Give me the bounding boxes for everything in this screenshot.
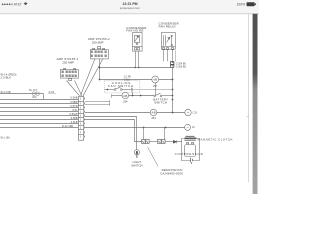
wire row 2 [0, 103, 78, 105]
scrollbar strip right edge [253, 14, 258, 194]
clutch return loop wire [182, 139, 200, 161]
svg-text:FAN SWITCH: FAN SWITCH [108, 84, 133, 88]
status bar left: signal dots, carrier, wifi [2, 3, 28, 7]
svg-text:FAN NO RE: FAN NO RE [126, 29, 143, 33]
harness fan-out wires [67, 59, 104, 97]
magnetic clutch MC1 [184, 136, 196, 141]
svg-text:0.5AB: 0.5AB [70, 96, 77, 99]
svg-text:AT&T: AT&T [14, 3, 22, 7]
svg-text:COMPRESSOR: COMPRESSOR [175, 152, 204, 156]
svg-text:D-14 16B: D-14 16B [62, 125, 73, 128]
connector circle 257 (A/B) [152, 76, 159, 88]
battery symbol B2 [191, 158, 193, 164]
connector C-14 vertical strip [78, 97, 84, 141]
wire row 6 [0, 119, 78, 121]
junction dots relay K1 pins on bus [134, 67, 136, 69]
connector C-14 pin nubs [84, 98, 85, 138]
svg-text:justanswer.com: justanswer.com [119, 6, 141, 10]
svg-text:0.5BR: 0.5BR [70, 101, 77, 104]
svg-text:2.0 B: 2.0 B [49, 91, 55, 94]
wire row 4 [0, 111, 78, 113]
wire B to clutch line [85, 120, 142, 142]
svg-text:C13: C13 [193, 112, 198, 115]
wire through 254 [112, 94, 154, 97]
svg-text:A/B: A/B [151, 111, 155, 114]
svg-text:10: 10 [192, 126, 195, 129]
wire switch to drop [133, 89, 172, 91]
svg-text:C-206 BU: C-206 BU [176, 65, 187, 68]
svg-text:SWITCH: SWITCH [154, 101, 167, 105]
svg-text:250 AMP: 250 AMP [92, 40, 104, 44]
border tick mark [247, 116, 249, 118]
junction dot [172, 99, 174, 101]
wire row labels [62, 96, 78, 128]
svg-text:C-110: C-110 [124, 79, 131, 81]
drop wire from C-204 [172, 68, 174, 113]
svg-text:254: 254 [151, 116, 156, 120]
junction dot [172, 89, 174, 91]
terminal circle C13 [185, 109, 191, 115]
junction dot [172, 79, 174, 81]
vertical feed from CN1 [99, 59, 101, 80]
wire row 5 [0, 115, 78, 117]
terminal circle C10 [185, 124, 191, 130]
connector pair CP2 [158, 140, 166, 144]
relay K1 pin wires [136, 52, 139, 68]
svg-text:W-1 2.0B: W-1 2.0B [1, 91, 11, 94]
resistor leader line [148, 147, 158, 166]
cooling fan switch dashed enclosure [105, 81, 140, 93]
svg-text:100%: 100% [237, 3, 246, 7]
chain wire [149, 141, 157, 143]
wire jog down to row 1 [43, 94, 45, 100]
wire row 7 [0, 123, 78, 125]
connector C-204 (2-pin bracket) [171, 62, 174, 68]
status bar background [0, 0, 259, 14]
wire stub with label [48, 93, 56, 95]
inline splice B1 on wire W-14 [32, 92, 39, 95]
svg-text:A/B: A/B [153, 79, 157, 82]
junction dot [172, 95, 174, 97]
svg-text:MAGNETIC CLUTCH: MAGNETIC CLUTCH [198, 137, 233, 141]
drop from 257 to switch [155, 83, 157, 95]
light bulb L1 [134, 150, 139, 158]
connector CN1 (AMP 8-pin, top) [91, 47, 109, 59]
connector pair CP1 [142, 140, 150, 144]
svg-text:0.5L: 0.5L [72, 109, 78, 112]
svg-text:0.5YR: 0.5YR [70, 105, 77, 108]
svg-text:B+ JCT: B+ JCT [29, 89, 38, 92]
diode D1 [173, 140, 182, 143]
svg-text:0.5GW: 0.5GW [70, 113, 79, 116]
wire to C10 [85, 127, 185, 129]
chain wire [165, 141, 173, 143]
stub wires from connector C-14 [85, 100, 110, 105]
wire row 1 [0, 99, 78, 101]
svg-text:FAN RELAY: FAN RELAY [159, 24, 177, 28]
svg-text:SWITCH: SWITCH [131, 163, 143, 167]
wire A to light [85, 117, 137, 150]
connector CN2 (AMP 8-pin, lower-left) [61, 69, 79, 81]
connector circle 258 (A/B) on bus [150, 109, 157, 120]
svg-text:CA246455-0029: CA246455-0029 [160, 172, 183, 176]
relay K1 (condenser fan no.2 relay) [132, 33, 142, 52]
svg-text:A/B: A/B [123, 95, 127, 98]
wire row 8 [0, 127, 78, 129]
bus wire y112.3 [85, 112, 185, 114]
drop wires to connectors [144, 127, 165, 140]
wire row 3 [0, 107, 78, 109]
svg-text:30A: 30A [32, 96, 37, 99]
svg-text:W-1 16A: W-1 16A [1, 136, 11, 139]
schematic page right border [248, 14, 250, 182]
svg-text:254: 254 [123, 100, 128, 104]
connector circle 254 (A/B) [122, 92, 129, 103]
svg-text:0.85B: 0.85B [71, 117, 78, 120]
relay K2 pin wire 4 [175, 51, 177, 62]
battery switch S2 [154, 93, 173, 97]
svg-text:0.5LB: 0.5LB [71, 121, 78, 124]
connector C-14 cell ticks [80, 98, 82, 138]
compressor M1 [185, 143, 196, 157]
cooling fan switch contacts S1 [104, 87, 132, 92]
svg-text:250 AMP: 250 AMP [62, 60, 74, 64]
relay K2 (condenser fan relay) [162, 33, 176, 50]
drop from fan switch to 254 wire [132, 92, 134, 96]
junction dots on vertical feed [99, 67, 101, 69]
bus wire y67.5 [100, 67, 171, 69]
svg-text:2.0 BLK: 2.0 BLK [1, 76, 12, 80]
wire W-14 top-left horizontal [0, 93, 44, 95]
bus wire y79.3 [100, 79, 173, 81]
relay K2 pin wires [164, 49, 176, 61]
